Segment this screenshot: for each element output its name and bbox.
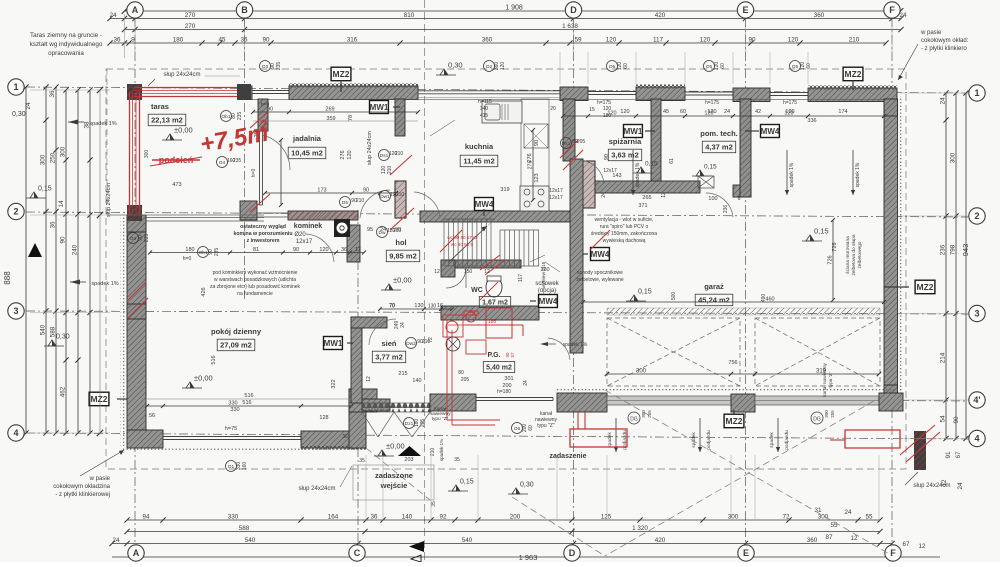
svg-text:540: 540 xyxy=(245,537,256,544)
grid bubble 2 left xyxy=(8,203,24,219)
grid bubble A top xyxy=(127,2,143,18)
svg-text:255: 255 xyxy=(830,410,835,418)
svg-text:4': 4' xyxy=(973,395,980,405)
svg-text:67: 67 xyxy=(955,451,962,459)
kitchen stove xyxy=(520,186,549,211)
svg-text:spiżarnia: spiżarnia xyxy=(609,137,642,146)
MW4 flag pomtech xyxy=(761,125,780,138)
svg-text:540: 540 xyxy=(40,324,47,335)
south wall corner block xyxy=(127,430,163,448)
door arc hol-jadalnia xyxy=(360,190,390,218)
svg-text:C: C xyxy=(354,548,361,558)
svg-text:300: 300 xyxy=(824,410,829,418)
grid axis 4p horizontal right part xyxy=(560,399,968,401)
svg-text:O3: O3 xyxy=(262,64,269,70)
svg-text:173: 173 xyxy=(317,188,326,194)
fireplace symbol xyxy=(334,219,350,237)
svg-text:słup 24x24cm: słup 24x24cm xyxy=(106,183,112,217)
window mark O6 porch xyxy=(512,423,523,434)
svg-text:210: 210 xyxy=(430,448,436,457)
svg-text:214: 214 xyxy=(940,352,947,363)
left leader to wall corner xyxy=(80,450,124,476)
left 888 xyxy=(23,84,28,435)
svg-text:81: 81 xyxy=(253,247,259,253)
svg-text:60: 60 xyxy=(623,63,629,69)
red bottom shape F xyxy=(845,430,900,448)
svg-text:90: 90 xyxy=(953,416,960,424)
jadalnia top dims xyxy=(251,107,420,115)
red door stub hol/jadalnia xyxy=(395,181,406,218)
north window pom tech xyxy=(770,92,808,94)
level pokoj 0,00 xyxy=(186,382,194,388)
sien sw block xyxy=(349,389,377,412)
extension line x=573.5 xyxy=(573,14,575,58)
svg-text:12x17: 12x17 xyxy=(549,195,563,201)
red chimney marks kuchnia xyxy=(560,140,578,158)
door arc pokoj xyxy=(306,234,334,262)
svg-text:0,30: 0,30 xyxy=(56,334,70,341)
garage 726 xyxy=(828,218,836,302)
garage mid pier xyxy=(731,394,755,412)
stair direction arrow xyxy=(449,226,487,262)
MW1 stub wall north xyxy=(395,99,405,136)
svg-text:Dw2: Dw2 xyxy=(406,341,416,347)
grid bubble F bottom xyxy=(885,545,901,561)
grid bubble 4 right xyxy=(969,430,985,446)
MW4 flag schowek xyxy=(539,295,558,308)
svg-text:78: 78 xyxy=(348,115,354,121)
svg-text:z inwestorem: z inwestorem xyxy=(247,238,280,244)
svg-text:- z płytki klinkiero: - z płytki klinkiero xyxy=(921,46,967,52)
window mark O4 xyxy=(217,157,228,168)
svg-text:460: 460 xyxy=(765,297,774,303)
svg-text:kanał nawiewny: kanał nawiewny xyxy=(822,362,828,396)
svg-text:3,63 m2: 3,63 m2 xyxy=(611,151,639,160)
svg-text:120: 120 xyxy=(607,111,616,117)
left col2 xyxy=(40,84,49,435)
north wall pier 2 xyxy=(636,87,685,101)
staircase treads xyxy=(444,219,495,266)
svg-text:24: 24 xyxy=(844,509,852,516)
svg-text:180: 180 xyxy=(173,37,184,44)
svg-text:12: 12 xyxy=(355,247,361,253)
svg-text:330: 330 xyxy=(228,514,239,521)
garage gate 2 xyxy=(755,396,879,405)
svg-text:2: 2 xyxy=(13,207,18,217)
right 943 xyxy=(961,90,970,441)
grid bubble D top xyxy=(565,2,581,18)
svg-text:1 963: 1 963 xyxy=(519,553,538,562)
grid bubble D bottom xyxy=(564,545,580,561)
MZ2 flag top right xyxy=(843,67,863,81)
svg-text:24: 24 xyxy=(957,482,964,490)
spadek arrow pg xyxy=(540,342,548,346)
taras column A1 xyxy=(127,84,142,100)
extension line bottom x=557 xyxy=(556,455,558,521)
bottom fine dims xyxy=(124,514,882,523)
svg-text:128: 128 xyxy=(319,415,328,421)
north wall corner block at B xyxy=(239,86,252,100)
svg-text:371: 371 xyxy=(638,203,647,209)
svg-text:E: E xyxy=(743,548,749,558)
svg-text:810: 810 xyxy=(404,12,415,19)
north wall pier 3 xyxy=(733,88,770,102)
door mark Dw sien xyxy=(377,227,388,238)
grid bubble C bottom xyxy=(349,545,365,561)
svg-text:45: 45 xyxy=(663,109,669,115)
svg-text:pod kominkiem wykonać wzmocnie: pod kominkiem wykonać wzmocnienie xyxy=(213,270,298,276)
svg-text:O3: O3 xyxy=(130,236,137,242)
svg-text:sień: sień xyxy=(381,339,396,348)
svg-text:60: 60 xyxy=(528,425,534,431)
door arc garaz-pg xyxy=(548,338,570,360)
svg-text:60: 60 xyxy=(680,109,686,115)
svg-text:72: 72 xyxy=(782,514,790,521)
taras south edge line xyxy=(107,214,264,216)
svg-text:h=175: h=175 xyxy=(597,100,611,106)
svg-text:235: 235 xyxy=(233,158,242,164)
svg-text:120: 120 xyxy=(700,37,711,44)
MZ2 flag garage mid xyxy=(724,414,744,428)
kominek sill lines xyxy=(257,212,288,214)
svg-text:269: 269 xyxy=(325,107,334,113)
svg-text:516: 516 xyxy=(242,400,251,406)
spizarnia east wall xyxy=(651,99,661,185)
svg-text:Dz1: Dz1 xyxy=(405,421,414,427)
west facade dots corner xyxy=(121,447,127,453)
svg-text:rura "spiro" lub PCV o: rura "spiro" lub PCV o xyxy=(600,224,649,230)
jad col xyxy=(279,138,283,207)
svg-text:80: 80 xyxy=(458,370,464,376)
svg-text:jadalnia: jadalnia xyxy=(292,134,322,143)
grid bubble E bottom xyxy=(738,545,754,561)
grid bubble 1 right xyxy=(969,85,985,101)
svg-text:h=175: h=175 xyxy=(705,100,719,106)
svg-text:415: 415 xyxy=(480,113,489,119)
svg-text:92: 92 xyxy=(439,514,447,521)
svg-text:ściana murowana: ściana murowana xyxy=(845,236,851,274)
svg-text:210: 210 xyxy=(396,192,405,198)
svg-text:150: 150 xyxy=(464,269,473,275)
svg-text:MZ2: MZ2 xyxy=(845,69,862,79)
south facade dots band xyxy=(127,447,366,451)
svg-text:cokołowym okład:: cokołowym okład: xyxy=(921,38,969,44)
pg red pipes xyxy=(446,320,448,420)
taras red edge top xyxy=(134,87,237,89)
porch dashed diagonal xyxy=(366,448,430,500)
svg-text:żelbetowe, wylewane: żelbetowe, wylewane xyxy=(576,277,623,283)
garage SW pier xyxy=(557,393,607,412)
svg-text:36: 36 xyxy=(113,37,121,44)
svg-text:236: 236 xyxy=(723,205,729,214)
svg-text:42: 42 xyxy=(755,109,761,115)
svg-text:473: 473 xyxy=(172,182,181,188)
grid bubble 3 right xyxy=(969,305,985,321)
svg-text:- z płytki klinkierowej: - z płytki klinkierowej xyxy=(55,492,110,498)
svg-text:95: 95 xyxy=(367,227,373,233)
east wall pier top xyxy=(884,99,898,116)
red mark on door stub xyxy=(390,155,412,175)
north wall pier 1 xyxy=(560,87,588,101)
svg-text:schowek: schowek xyxy=(535,281,559,287)
svg-text:360: 360 xyxy=(807,537,818,544)
svg-text:1 908: 1 908 xyxy=(505,5,523,12)
grid bubble E top xyxy=(737,2,753,18)
spadek podjazdu x=616 xyxy=(615,418,617,452)
svg-text:średnicy 150mm, zakończona: średnicy 150mm, zakończona xyxy=(591,231,657,237)
svg-text:MW4: MW4 xyxy=(591,250,610,259)
svg-text:0,15: 0,15 xyxy=(38,186,52,193)
svg-text:Ob1: Ob1 xyxy=(198,250,207,256)
svg-text:9: 9 xyxy=(131,37,135,44)
svg-text:35: 35 xyxy=(359,458,365,464)
left spadek arrow lower xyxy=(70,280,80,285)
north window spizarnia R xyxy=(685,91,733,93)
svg-text:120: 120 xyxy=(500,62,506,71)
bottom black arrow marker xyxy=(409,541,424,552)
svg-text:24: 24 xyxy=(380,227,386,233)
grid bubble B top xyxy=(236,2,252,18)
grid axis A vertical xyxy=(134,18,136,548)
svg-text:±0,00: ±0,00 xyxy=(386,442,405,451)
hol south thick wall xyxy=(441,306,539,320)
svg-text:301: 301 xyxy=(504,376,513,382)
svg-text:5,40 m2: 5,40 m2 xyxy=(486,365,512,372)
svg-text:36: 36 xyxy=(49,90,56,98)
grid axis 2 horizontal xyxy=(26,212,968,217)
grid axis F vertical xyxy=(891,18,893,548)
WC north wall xyxy=(441,260,521,268)
svg-text:0,15: 0,15 xyxy=(814,227,829,236)
svg-text:słup 24x24cm: słup 24x24cm xyxy=(913,483,950,489)
svg-text:120: 120 xyxy=(784,111,793,117)
wall dims row xyxy=(561,111,886,119)
svg-text:0,30: 0,30 xyxy=(12,111,26,118)
svg-text:90: 90 xyxy=(395,227,401,233)
svg-text:255: 255 xyxy=(647,410,652,418)
svg-text:kuchnia: kuchnia xyxy=(465,142,494,151)
svg-text:316: 316 xyxy=(347,37,358,44)
extension line right y=313.5 xyxy=(900,313,968,315)
west wall body xyxy=(127,215,146,446)
svg-text:4: 4 xyxy=(13,428,18,438)
top fine dims xyxy=(107,37,888,46)
left col6 xyxy=(84,87,93,435)
spadek arrow x=853 xyxy=(852,150,854,195)
west wall pier a xyxy=(127,215,146,232)
svg-text:130: 130 xyxy=(414,303,423,309)
left col4 xyxy=(60,87,69,435)
window mark O5a xyxy=(607,61,618,72)
svg-text:D: D xyxy=(570,5,577,15)
svg-text:wc 80 50 8: wc 80 50 8 xyxy=(451,242,474,247)
svg-text:spadek 1%: spadek 1% xyxy=(563,342,588,348)
svg-text:90: 90 xyxy=(293,247,299,253)
level garaz2 0,15 xyxy=(630,295,638,301)
zadaszone wejscie box xyxy=(353,465,434,500)
svg-text:O5: O5 xyxy=(706,64,713,70)
south window pokoj xyxy=(163,436,301,438)
door mark Dw2 xyxy=(406,338,417,349)
svg-text:143: 143 xyxy=(612,173,621,179)
svg-text:spadek 1%: spadek 1% xyxy=(439,439,444,461)
svg-text:300: 300 xyxy=(40,154,47,165)
svg-text:h=115: h=115 xyxy=(478,99,492,105)
level bottom 0,30 xyxy=(512,488,520,494)
pg boiler red xyxy=(443,315,463,337)
svg-text:516: 516 xyxy=(211,355,217,364)
svg-text:130: 130 xyxy=(540,267,549,273)
svg-text:210: 210 xyxy=(395,151,404,157)
north window spizarnia L xyxy=(588,91,636,93)
red marks west xyxy=(128,282,146,300)
grid axis C vertical xyxy=(357,210,359,548)
pomtech door pier xyxy=(733,185,751,197)
svg-text:330: 330 xyxy=(230,407,239,413)
svg-text:ostateczny wygląd: ostateczny wygląd xyxy=(240,224,286,230)
grid bubble 4' right xyxy=(969,392,985,408)
svg-text:12x17: 12x17 xyxy=(549,188,563,194)
svg-text:12: 12 xyxy=(434,269,440,275)
wc door arc xyxy=(446,268,466,288)
eave boundary dashed rectangle xyxy=(106,69,906,469)
MW4 flag stairs xyxy=(591,248,610,261)
svg-text:24: 24 xyxy=(724,109,730,115)
spizarnia south wall xyxy=(595,181,700,193)
svg-text:90: 90 xyxy=(363,188,369,194)
svg-text:9,85 m2: 9,85 m2 xyxy=(389,252,417,261)
centre auxiliary vertical dashed line xyxy=(424,0,426,562)
svg-text:38: 38 xyxy=(84,121,91,129)
extension line bottom x=879 xyxy=(878,455,880,521)
svg-text:MZ2: MZ2 xyxy=(91,394,108,404)
svg-text:MW1: MW1 xyxy=(324,339,343,348)
svg-text:0,15: 0,15 xyxy=(460,479,474,486)
svg-text:300: 300 xyxy=(950,152,957,163)
grid axis 4 horizontal xyxy=(26,433,968,439)
svg-text:1: 1 xyxy=(13,82,18,92)
svg-text:24: 24 xyxy=(899,12,907,19)
svg-text:72: 72 xyxy=(428,337,434,343)
svg-text:117: 117 xyxy=(518,274,524,282)
svg-text:Ø20: Ø20 xyxy=(294,232,306,238)
taras dims xyxy=(148,247,366,255)
pokoj dims xyxy=(145,401,353,409)
level garaz 0,15 xyxy=(806,235,814,241)
taras column B1 xyxy=(237,84,251,100)
svg-text:10,45 m2: 10,45 m2 xyxy=(291,149,323,158)
svg-text:35: 35 xyxy=(454,457,460,463)
left dim col extra3 xyxy=(99,90,101,433)
svg-text:h=0: h=0 xyxy=(251,169,257,178)
svg-text:67: 67 xyxy=(902,541,910,548)
MW4 flag kitchen xyxy=(475,198,494,211)
svg-text:zadaszenie: zadaszenie xyxy=(550,453,587,460)
svg-text:Dw1: Dw1 xyxy=(380,194,390,200)
svg-text:DG: DG xyxy=(813,417,821,423)
garage hatch strip xyxy=(607,308,880,315)
svg-text:90: 90 xyxy=(604,154,610,160)
svg-text:spadek 1%: spadek 1% xyxy=(635,162,641,187)
svg-text:726: 726 xyxy=(828,255,834,264)
svg-text:174: 174 xyxy=(838,109,847,115)
door mark Dz1 porch xyxy=(404,418,415,429)
svg-text:426: 426 xyxy=(201,287,207,296)
svg-text:wywiew Ø15: wywiew Ø15 xyxy=(541,261,547,288)
svg-text:w pasie: w pasie xyxy=(920,30,942,36)
svg-text:wc 90 80 57 Ø: wc 90 80 57 Ø xyxy=(447,235,477,240)
porch window xyxy=(476,397,553,399)
svg-text:słup 24x24cm: słup 24x24cm xyxy=(163,72,200,78)
svg-text:F: F xyxy=(889,5,895,15)
svg-text:żelbetowa do słupa: żelbetowa do słupa xyxy=(851,234,857,275)
svg-text:14: 14 xyxy=(58,200,65,208)
svg-text:57: 57 xyxy=(510,352,515,358)
grid axis D vertical xyxy=(573,18,575,548)
jadalnia west corner block xyxy=(240,201,257,220)
svg-text:250: 250 xyxy=(50,152,57,163)
svg-text:h=175: h=175 xyxy=(783,100,797,106)
svg-text:24: 24 xyxy=(601,192,607,198)
garage width dim xyxy=(581,297,886,305)
svg-text:90: 90 xyxy=(60,236,67,244)
svg-text:45,24 m2: 45,24 m2 xyxy=(698,296,730,305)
door mark D5 xyxy=(340,197,351,208)
svg-text:pom. tech.: pom. tech. xyxy=(700,129,738,138)
window mark O5c xyxy=(790,61,801,72)
bowtie vent pomtech xyxy=(698,176,714,188)
spadek podjazdu x=700 xyxy=(699,418,701,452)
svg-text:185: 185 xyxy=(488,319,497,325)
svg-text:130: 130 xyxy=(428,304,437,310)
MZ2 flag east xyxy=(915,280,935,294)
bottom overall 1 963 xyxy=(112,556,940,558)
left col5 xyxy=(72,87,81,435)
svg-text:spadek 1%: spadek 1% xyxy=(91,281,118,287)
right col3 xyxy=(940,90,949,441)
extension line left y=215 xyxy=(30,214,110,216)
svg-text:schody spocznikowe: schody spocznikowe xyxy=(577,270,623,276)
svg-text:±0,00: ±0,00 xyxy=(194,374,213,383)
svg-text:54: 54 xyxy=(940,415,947,423)
grid axis E vertical xyxy=(745,18,747,548)
pg fixture red 2 xyxy=(466,340,486,354)
svg-text:O5: O5 xyxy=(792,64,799,70)
svg-text:Ob1: Ob1 xyxy=(221,114,230,120)
hol dims xyxy=(378,304,454,311)
window mark O3 top xyxy=(260,61,271,72)
svg-text:120: 120 xyxy=(606,37,617,44)
left level 0,30 lower xyxy=(48,340,56,346)
taras column A2 xyxy=(127,205,142,221)
svg-text:360: 360 xyxy=(482,37,493,44)
sien west wall lower xyxy=(349,389,366,448)
svg-text:420: 420 xyxy=(655,12,666,19)
svg-text:123: 123 xyxy=(534,173,540,182)
extension line bottom x=478 xyxy=(477,455,479,521)
kitchen south wall MW4 xyxy=(420,211,573,222)
svg-text:taras: taras xyxy=(151,102,169,111)
pomtech east wall xyxy=(740,99,751,197)
left spadek arrow upper xyxy=(68,120,78,125)
svg-text:(opcja): (opcja) xyxy=(538,288,556,294)
svg-text:90: 90 xyxy=(534,140,540,146)
svg-text:60: 60 xyxy=(720,63,726,69)
svg-text:MW4: MW4 xyxy=(539,297,558,306)
top dim row2 xyxy=(107,12,907,21)
svg-text:94: 94 xyxy=(142,514,150,521)
west wall pier b xyxy=(127,304,146,319)
